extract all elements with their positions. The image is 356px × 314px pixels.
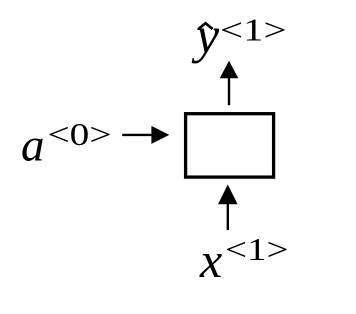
arrowhead: output arrow (top) xyxy=(220,61,239,78)
arrowhead: input arrow (left) xyxy=(151,126,169,144)
wire: input arrow shaft (bottom, x<1>) xyxy=(227,204,229,231)
hat accent over y xyxy=(199,23,213,29)
svg-text:<1>: <1> xyxy=(220,12,287,48)
svg-text:y: y xyxy=(191,8,220,65)
RNN cell box xyxy=(186,114,274,177)
svg-text:<1>: <1> xyxy=(225,231,289,267)
svg-text:x: x xyxy=(199,232,222,288)
arrowhead: input arrow (bottom) xyxy=(218,185,238,205)
wire: output arrow shaft (top) xyxy=(228,78,230,106)
wire: input arrow shaft (left, a<0>) xyxy=(122,134,152,136)
svg-text:<0>: <0> xyxy=(48,116,112,152)
svg-text:a: a xyxy=(21,120,45,172)
